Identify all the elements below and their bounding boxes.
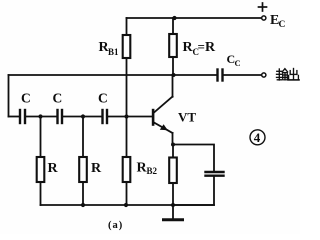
wire Cc to output — [224, 74, 262, 76]
label R1 — [48, 161, 59, 176]
capacitor C1 — [20, 110, 25, 123]
wire collector up — [172, 75, 174, 97]
svg-text:B1: B1 — [108, 47, 119, 57]
svg-text:R: R — [91, 161, 102, 176]
wire top supply rail — [127, 17, 262, 19]
svg-text:R: R — [205, 40, 216, 55]
wire emitter resistor top — [172, 145, 174, 158]
node R2 junction — [81, 114, 85, 118]
svg-text:(a): (a) — [108, 220, 123, 231]
wire RB1 top — [126, 18, 128, 35]
node RB2 ground junction — [124, 203, 128, 207]
wire R2 drop — [82, 117, 84, 158]
wire R1 to ground rail — [40, 182, 42, 205]
capacitor C3 — [103, 110, 108, 123]
circled figure number 4 — [250, 130, 265, 145]
capacitor CE bypass — [206, 172, 224, 176]
svg-text:R: R — [48, 161, 59, 176]
wire ground rail — [41, 204, 215, 206]
terminal output — [262, 73, 266, 77]
resistor R2 — [79, 157, 87, 182]
resistor RE — [169, 158, 177, 184]
transistor VT emitter stroke — [154, 123, 173, 134]
wire C1 to C2 — [26, 116, 57, 118]
resistor R1 — [37, 157, 45, 182]
svg-text:4: 4 — [254, 130, 261, 145]
node collector junction — [172, 73, 176, 77]
wire emitter down — [172, 133, 174, 145]
wire RC bottom — [172, 57, 174, 75]
transistor VT emitter arrow — [160, 124, 168, 130]
node RC top junction — [172, 16, 176, 20]
label C2 — [53, 91, 63, 106]
label R2 — [91, 161, 102, 176]
transistor VT collector stroke — [154, 97, 173, 113]
label Ec — [270, 13, 286, 30]
wire cap row left segment — [9, 116, 20, 118]
svg-text:C: C — [21, 91, 31, 106]
label C3 — [98, 91, 108, 106]
svg-text:C: C — [53, 91, 63, 106]
wire R1 drop — [40, 117, 42, 158]
svg-text:VT: VT — [178, 110, 196, 125]
wire R2 to ground rail — [82, 182, 84, 205]
wire RB2 drop — [126, 117, 128, 158]
label + polarity — [259, 3, 267, 11]
node emitter junction — [171, 143, 175, 147]
wire collector node line — [9, 74, 217, 76]
ground — [164, 205, 183, 220]
capacitor C2 — [58, 110, 63, 123]
wire RE to ground rail — [172, 183, 174, 205]
svg-text:=: = — [198, 39, 205, 54]
wire C2 to C3 — [63, 116, 102, 118]
transistor VT base bar — [152, 109, 155, 126]
node base junction — [124, 114, 128, 118]
wire RB1 bottom to base node — [126, 58, 128, 117]
label RB1 — [99, 40, 120, 57]
label RB2 — [137, 161, 158, 177]
label Cc — [227, 52, 241, 68]
wire RB2 to ground rail — [126, 182, 128, 205]
svg-text:C: C — [279, 20, 286, 30]
resistor RC — [169, 34, 177, 57]
resistor RB2 — [123, 157, 131, 182]
caption (a) — [108, 220, 123, 231]
wire C3 to base — [108, 116, 152, 118]
svg-text:C: C — [235, 58, 241, 68]
wire left feedback drop — [8, 75, 10, 117]
label C1 — [21, 91, 31, 106]
capacitor Cc — [218, 70, 223, 81]
node R2 ground junction — [81, 203, 85, 207]
svg-text:B2: B2 — [147, 166, 158, 176]
node emitter ground junction — [171, 203, 175, 207]
label RC=R — [183, 39, 217, 57]
svg-text:C: C — [98, 91, 108, 106]
terminal +Ec — [262, 16, 266, 20]
node R1 junction — [38, 114, 42, 118]
wire bypass cap bottom — [173, 176, 214, 205]
wire RC top — [172, 18, 174, 34]
label shuchu (output) — [277, 69, 300, 81]
wire emitter node to bypass cap — [173, 145, 214, 172]
label VT — [178, 110, 196, 125]
resistor RB1 — [123, 35, 131, 58]
